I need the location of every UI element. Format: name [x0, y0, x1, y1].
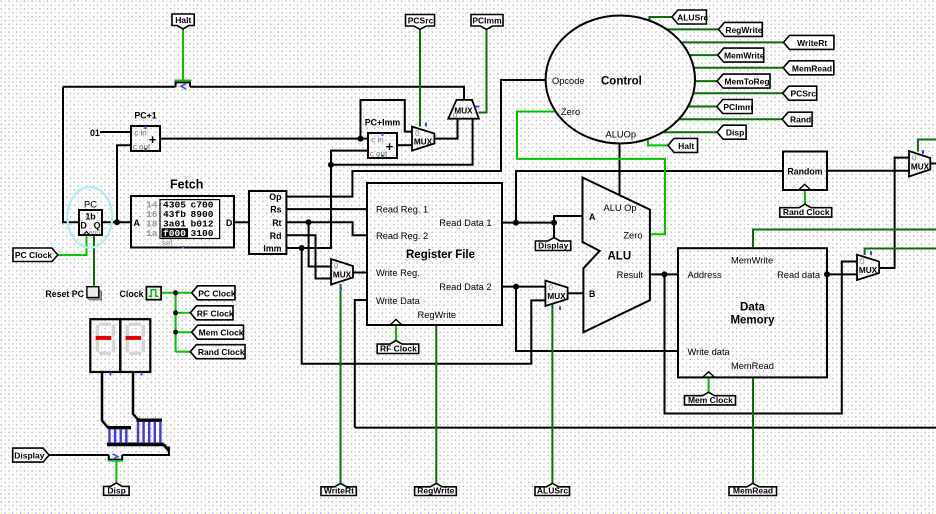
tunnel Disp (below display buffer) — [104, 483, 130, 495]
junction clock / PC Clock — [173, 290, 178, 295]
svg-text:WriteRt: WriteRt — [324, 486, 354, 496]
tunnel PCSrc (top) — [406, 15, 435, 30]
wire: Rt branch to WriteReg mux — [309, 222, 331, 266]
wire: Random output to final mux — [827, 170, 909, 172]
svg-text:MUX: MUX — [547, 292, 566, 301]
svg-text:ALU: ALU — [608, 251, 632, 263]
wire: Read Data 2 branch to Data Memory write data — [516, 287, 678, 351]
wire: left vertical down to PC D input — [63, 87, 79, 223]
wire: Op field to Control Opcode — [286, 80, 545, 197]
wire: top PC writeback bus right part to PCImm mux — [190, 87, 464, 100]
wire: ALUOp from Control to ALU — [619, 144, 621, 195]
svg-text:0: 0 — [415, 129, 420, 138]
svg-text:Read Reg. 1: Read Reg. 1 — [376, 204, 428, 214]
wire: Control MemWrite output — [689, 54, 717, 56]
svg-text:0: 0 — [334, 262, 339, 271]
wire: display buffer staple — [109, 455, 122, 460]
svg-text:Opcode: Opcode — [552, 76, 585, 86]
svg-text:+: + — [149, 132, 157, 147]
wire: PC clock to PC Clock tunnel — [58, 235, 87, 255]
splitter for displays — [107, 420, 169, 450]
svg-text:Register File: Register File — [406, 249, 475, 261]
junction Read Data 2 / write data branch — [513, 284, 519, 290]
wire: right 7seg display lead — [133, 372, 140, 420]
wire: Display tunnel to splitter — [49, 454, 109, 456]
junction Imm bus — [328, 162, 334, 168]
svg-text:A: A — [134, 218, 141, 228]
junction clock / Mem Clock — [173, 330, 178, 335]
svg-text:RegWrite: RegWrite — [418, 310, 457, 320]
svg-text:c in: c in — [371, 136, 383, 145]
red middle segment — [126, 336, 142, 340]
tunnel WriteRt (control out) — [784, 35, 834, 49]
tunnel Halt (control out) — [668, 138, 698, 152]
svg-text:MUX: MUX — [414, 138, 433, 147]
tunnel ALUSrc (bottom) — [535, 483, 570, 495]
svg-text:Rand Clock: Rand Clock — [783, 207, 830, 217]
wire: Imm down branch to ALUSrc mux — [302, 248, 546, 364]
svg-text:ALUSrc: ALUSrc — [537, 486, 568, 496]
tunnel Rand Clock (clock row) — [190, 345, 245, 359]
junction Result loop — [662, 271, 668, 277]
svg-text:A: A — [589, 212, 596, 222]
tunnel PCImm (control out) — [717, 100, 752, 114]
svg-text:Halt: Halt — [175, 15, 191, 25]
tunnel Mem Clock (below data memory) — [685, 392, 736, 405]
svg-text:MemWrite: MemWrite — [724, 51, 765, 61]
svg-text:ALUSrc: ALUSrc — [677, 13, 708, 23]
wire: to Mem Clock tunnel — [176, 331, 192, 333]
tunnel PC Clock (to PC, right-pointing) — [13, 248, 58, 262]
svg-text:D: D — [226, 218, 232, 228]
svg-text:Clock: Clock — [120, 289, 144, 299]
svg-text:MemRead: MemRead — [792, 63, 832, 73]
svg-text:Control: Control — [601, 75, 642, 87]
svg-text:PCImm: PCImm — [723, 102, 753, 112]
instruction decoder splitter box — [249, 191, 286, 254]
wire: PC+1 output to PC+Imm and PCSrc mux bypass — [160, 138, 368, 140]
tunnel Display (left, right-pointing) — [13, 448, 49, 462]
wire: Fetch D to instruction decoder — [234, 221, 249, 223]
mux PCImm (upper, facing north) — [448, 100, 479, 120]
svg-text:PC Clock: PC Clock — [198, 288, 236, 298]
svg-text:Write data: Write data — [688, 347, 731, 357]
tunnel RF Clock (clock row) — [190, 306, 233, 320]
Control unit ellipse — [546, 16, 695, 144]
svg-text:Disp: Disp — [726, 128, 744, 138]
7-segment display left — [90, 319, 120, 375]
svg-text:WriteRt: WriteRt — [797, 38, 827, 48]
wire: PC value riser to PC+1 adder — [117, 145, 131, 222]
svg-text:B: B — [589, 289, 595, 299]
mux M4 write-register select — [331, 259, 353, 290]
wire: WriteRt tunnel riser to WriteReg mux select — [340, 284, 342, 483]
tunnel RegWrite (control out) — [719, 22, 763, 36]
wire: ALU Zero to Control Zero — [517, 112, 665, 235]
wire: Result loop down right and up to MemToReg mux — [665, 262, 858, 414]
tunnel PCSrc (control out) — [783, 86, 817, 100]
svg-text:RF Clock: RF Clock — [197, 308, 234, 318]
svg-text:0: 0 — [860, 257, 865, 266]
wire: ALU Result to Data Memory Address — [650, 273, 678, 275]
mux M2 MemToReg — [857, 251, 879, 280]
wire: PC enable to Reset PC button — [93, 235, 95, 287]
tunnel Display (below read data 1 branch) — [535, 238, 570, 251]
wire: PCSrc tunnel to PCSrc mux select — [419, 29, 421, 127]
svg-text:MUX: MUX — [859, 266, 878, 275]
tunnel PCImm (top) — [471, 15, 503, 30]
wire: Read Data 2 to ALUSrc mux — [502, 286, 545, 288]
svg-text:f000: f000 — [163, 228, 186, 239]
tunnel Disp (control out) — [717, 125, 746, 139]
wire: constant 01 to adder — [100, 131, 131, 133]
wire: ALUSrc riser from ALUSrc mux select — [551, 305, 553, 484]
junction Imm branch — [299, 245, 305, 251]
svg-text:0: 0 — [453, 111, 458, 120]
wire: Rt field to Read Reg 2 — [286, 222, 367, 235]
wire: Read Data 1 branch to Display tunnel — [553, 223, 555, 238]
wire: PC+Imm adder output to PCSrc mux — [397, 144, 412, 146]
wire: Control Rand output — [679, 118, 782, 120]
svg-text:Rand Clock: Rand Clock — [198, 347, 245, 357]
svg-text:PC+1: PC+1 — [134, 111, 156, 121]
wire: MemWrite bus to Data Memory — [753, 230, 936, 249]
svg-text:Rand: Rand — [790, 115, 811, 125]
svg-text:Display: Display — [14, 451, 45, 461]
button Reset PC — [45, 287, 101, 300]
junction Rt branch — [306, 219, 312, 225]
wire: PCSrc mux output up to PCImm mux — [434, 119, 457, 139]
wire: final mux output to right edge — [930, 163, 936, 165]
svg-text:RegWrite: RegWrite — [725, 25, 762, 35]
svg-text:Result: Result — [617, 270, 644, 280]
svg-text:en0: en0 — [89, 230, 100, 237]
svg-text:Reset PC: Reset PC — [45, 289, 84, 299]
7-segment display right — [120, 319, 150, 375]
wire: Imm riser into PC+Imm adder — [286, 151, 368, 248]
svg-text:MemWrite: MemWrite — [731, 255, 773, 265]
svg-text:RF Clock: RF Clock — [380, 344, 417, 354]
svg-text:PCSrc: PCSrc — [408, 16, 434, 26]
svg-text:Fetch: Fetch — [170, 178, 203, 192]
tunnel Halt (top) — [172, 14, 194, 29]
wire: PCImm tunnel to PCImm mux select — [479, 29, 487, 113]
svg-text:PC: PC — [84, 199, 97, 209]
wire: Control MemToReg output — [695, 80, 717, 82]
tunnel ALUSrc (control out) — [672, 10, 707, 24]
mux PCSrc (lower) — [412, 123, 434, 151]
svg-text:Read Data 2: Read Data 2 — [439, 282, 491, 292]
tunnel WriteRt (bottom) — [321, 483, 356, 495]
svg-text:Rt: Rt — [272, 218, 281, 228]
tunnel PC Clock (clock row) — [192, 286, 235, 300]
mux M3 ALUSrc — [545, 281, 567, 310]
svg-text:Disp: Disp — [107, 485, 125, 495]
wire: Control PCSrc output — [693, 92, 782, 94]
wire: Control ALUSrc output — [650, 17, 672, 22]
svg-text:MemRead: MemRead — [731, 361, 774, 371]
svg-text:Memory: Memory — [730, 314, 775, 326]
clock component — [120, 287, 162, 300]
svg-text:Rd: Rd — [270, 231, 282, 241]
svg-text:Op: Op — [269, 192, 282, 202]
wire: writeback data bus bottom to RF Write Data — [355, 427, 936, 429]
junction clock / RF Clock — [173, 310, 178, 315]
Register File — [367, 183, 502, 325]
svg-text:sel: sel — [162, 239, 172, 248]
svg-text:c in: c in — [134, 129, 146, 138]
wire: Random clock — [804, 190, 806, 205]
wire: display buffer enable to Disp tunnel — [115, 462, 117, 484]
wire: halt buffer staple on PC bus — [176, 82, 190, 86]
svg-text:PC Clock: PC Clock — [15, 250, 53, 260]
svg-text:MUX: MUX — [911, 163, 930, 172]
svg-text:MemRead: MemRead — [733, 486, 773, 496]
wire: Control WriteRt output — [681, 41, 783, 43]
svg-text:MemToReg: MemToReg — [724, 77, 769, 87]
controlled buffer glyph (halt) — [181, 84, 186, 89]
wire: MemRead riser from Data Memory — [752, 377, 754, 483]
wire: ALUSrc mux output to ALU B — [568, 292, 583, 294]
svg-text:Halt: Halt — [678, 141, 694, 151]
svg-text:Mem Clock: Mem Clock — [688, 395, 733, 405]
tunnel MemWrite (control out) — [718, 48, 764, 62]
svg-text:PC+Imm: PC+Imm — [365, 118, 401, 128]
wire: WriteReg mux output to Write Reg — [353, 272, 367, 274]
wire: Control Halt output to Halt tunnel — [648, 140, 668, 146]
svg-text:Mem Clock: Mem Clock — [199, 328, 244, 338]
adder PC+Imm — [365, 118, 401, 159]
svg-text:D: D — [80, 221, 86, 231]
tunnel Rand Clock (below random) — [780, 204, 832, 217]
wire: PC Q to Fetch A — [102, 221, 131, 223]
wire: Data Memory clock — [708, 377, 710, 392]
tunnel MemRead (bottom) — [729, 483, 777, 495]
svg-text:Write Reg.: Write Reg. — [376, 268, 420, 278]
svg-text:01: 01 — [90, 128, 100, 138]
svg-text:Zero: Zero — [623, 230, 642, 240]
wire: Rs field to Read Reg 1 — [286, 208, 367, 210]
wire: Control PCImm output — [688, 106, 717, 108]
svg-text:ALU Op: ALU Op — [604, 203, 637, 213]
ALU — [583, 178, 650, 333]
Random generator — [783, 152, 827, 191]
wire: Imm long bus to PCImm mux — [331, 119, 473, 165]
wire: RegWrite riser from Register File — [435, 325, 437, 483]
svg-text:Data: Data — [740, 301, 766, 313]
tunnel Mem Clock (clock row) — [192, 325, 244, 339]
svg-text:MUX: MUX — [333, 271, 352, 280]
wire: Read Data 1 to ALU A — [502, 216, 583, 223]
wire: Read Data 1 branch up and right to Random — [516, 171, 783, 223]
svg-text:Write Data: Write Data — [376, 296, 421, 306]
tunnel MemRead (control out) — [783, 61, 834, 75]
svg-text:ALUOp: ALUOp — [606, 130, 637, 140]
wire: left 7seg display lead — [102, 372, 109, 427]
svg-text:3100: 3100 — [191, 228, 214, 239]
register PC — [79, 199, 102, 236]
svg-text:0: 0 — [549, 283, 554, 292]
wire: Data Memory read data to MemToReg mux — [827, 273, 857, 275]
junction PC+1 output — [358, 136, 364, 142]
junction Read Data 1 / Random riser — [513, 220, 519, 226]
svg-text:Read Reg. 2: Read Reg. 2 — [376, 231, 428, 241]
wire: Register File clock — [395, 325, 397, 341]
tunnel RegWrite (bottom) — [415, 483, 457, 495]
svg-text:Read data: Read data — [777, 270, 821, 280]
wire: clock component to clock tunnels — [161, 292, 192, 294]
tunnel Rand (control out) — [782, 112, 812, 126]
svg-text:Zero: Zero — [561, 107, 580, 117]
tunnel MemToReg (control out) — [717, 74, 770, 88]
junction PC Q / PC+1 riser — [114, 219, 120, 225]
svg-text:PCSrc: PCSrc — [790, 89, 816, 99]
ROM Fetch — [131, 178, 234, 249]
tunnel RF Clock (below register file) — [377, 341, 419, 354]
wire: Control RegWrite output — [667, 28, 719, 30]
red middle segment — [96, 336, 112, 340]
adder PC+1 — [131, 111, 160, 152]
wire: MemToReg mux output up to final mux — [879, 158, 909, 268]
wire: Halt tunnel to halt buffer enable — [182, 29, 184, 81]
svg-text:+: + — [386, 139, 394, 154]
junction read data pin — [824, 271, 830, 277]
svg-text:Display: Display — [538, 241, 569, 251]
wire: Control MemRead output — [694, 67, 783, 69]
controlled buffer glyph (display) — [113, 454, 118, 459]
wire: to Rand Clock tunnel — [176, 351, 191, 353]
wire: to RF Clock tunnel — [176, 312, 191, 314]
svg-text:Rs: Rs — [270, 205, 281, 215]
svg-text:Random: Random — [787, 167, 822, 177]
svg-text:0: 0 — [912, 154, 917, 163]
svg-text:Address: Address — [688, 270, 722, 280]
wire: final mux select from right edge — [918, 140, 936, 152]
wire: top PC writeback bus y=86.7 left part — [63, 86, 176, 88]
Data Memory — [678, 248, 827, 377]
svg-text:1a: 1a — [146, 228, 158, 239]
svg-text:Read Data 1: Read Data 1 — [439, 218, 491, 228]
wire: Rd field to WriteReg mux — [286, 235, 331, 278]
wire: MemToReg bus to MemToReg mux select — [865, 249, 936, 256]
wire: Control Disp output — [663, 131, 718, 133]
junction ALU A / Display branch — [551, 220, 557, 226]
mux M1 final — [909, 150, 930, 177]
svg-text:Imm: Imm — [263, 244, 281, 254]
svg-text:PCImm: PCImm — [472, 16, 502, 26]
svg-text:RegWrite: RegWrite — [417, 486, 454, 496]
selection halo around PC — [68, 187, 113, 248]
